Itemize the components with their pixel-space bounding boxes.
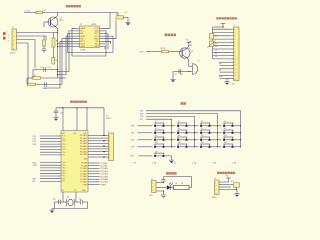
- svg-text:P3.1: P3.1: [62, 165, 66, 167]
- svg-text:P2.4/A12: P2.4/A12: [100, 173, 108, 176]
- svg-text:R3: R3: [56, 41, 58, 43]
- switch S2: [177, 123, 187, 127]
- ground reset key: [169, 160, 174, 163]
- svg-text:J5: J5: [214, 178, 216, 180]
- U1 left pin stubs: [58, 136, 61, 181]
- svg-text:9013: 9013: [60, 20, 64, 22]
- capacitor C4 on row C: [45, 82, 47, 86]
- net labels LCD data: [215, 46, 217, 58]
- wire U2 right pin4: [103, 36, 114, 52]
- wire U2 pin1 route: [72, 28, 77, 51]
- junction keypad: [171, 146, 172, 147]
- junction keypad: [217, 125, 218, 126]
- junction power b: [163, 190, 164, 191]
- title temperature sensor interface: [217, 172, 235, 174]
- power VCC sensor: [226, 177, 231, 179]
- wire button to column: [165, 146, 172, 148]
- wire row continue: [218, 139, 222, 141]
- svg-text:9: 9: [234, 55, 235, 57]
- svg-text:14: 14: [234, 72, 236, 74]
- capacitor C2: [42, 49, 46, 51]
- svg-text:PSEN: PSEN: [100, 184, 106, 186]
- switch S7: [200, 130, 210, 134]
- switch S17: [154, 153, 164, 157]
- wire U2 pin5 route: [62, 39, 77, 85]
- wire Q2 collector to VCC: [186, 42, 188, 48]
- wire keypad bus 1: [146, 111, 241, 147]
- svg-text:2: 2: [13, 36, 14, 38]
- svg-text:30p: 30p: [79, 198, 82, 200]
- svg-text:P12: P12: [33, 141, 36, 143]
- svg-text:R7: R7: [215, 36, 217, 38]
- LED D1: [167, 183, 173, 191]
- U2 right pin stubs: [100, 28, 103, 46]
- title audio amplifier section: [66, 5, 81, 7]
- wire row continue: [195, 132, 199, 134]
- microcontroller U1 body: [61, 131, 88, 193]
- svg-text:S1: S1: [155, 121, 157, 123]
- wire C2 down: [43, 51, 45, 54]
- connector J3 LCD: [234, 27, 240, 81]
- svg-text:C9: C9: [175, 74, 177, 76]
- wire keypad row 3: [138, 139, 153, 141]
- ground audio output: [125, 22, 130, 25]
- svg-text:D2: D2: [215, 53, 217, 55]
- resistor R6: [28, 83, 36, 86]
- switch S10: [177, 137, 187, 141]
- wire C6 down: [55, 113, 57, 118]
- wire button to column: [188, 125, 195, 127]
- connector J4 power: [152, 181, 157, 193]
- junction pin5 rowB: [61, 77, 62, 78]
- svg-text:P2.0/A8: P2.0/A8: [81, 162, 87, 165]
- junction rowA: [57, 69, 58, 70]
- ground reset: [53, 118, 58, 121]
- U1 bottom pin labels: [62, 190, 87, 192]
- wire xtal right: [74, 201, 80, 203]
- junction keypad: [240, 125, 241, 126]
- junction pin4 route: [57, 74, 58, 75]
- wire R10 bottom lead: [236, 187, 238, 189]
- U2 left pin stubs: [77, 28, 80, 46]
- svg-text:S12: S12: [224, 135, 227, 137]
- svg-text:13: 13: [234, 69, 236, 71]
- switch S14: [177, 144, 187, 148]
- svg-text:J2: J2: [108, 131, 110, 133]
- switch S4: [223, 123, 233, 127]
- svg-text:P13: P13: [33, 144, 36, 146]
- capacitor C3 on row A: [44, 67, 46, 71]
- svg-text:RXD: RXD: [33, 162, 38, 164]
- connector J5 sensor: [215, 180, 220, 195]
- svg-text:P3.0: P3.0: [62, 162, 66, 164]
- svg-text:1: 1: [13, 32, 14, 34]
- svg-text:7: 7: [109, 152, 110, 154]
- wire button to column: [188, 139, 195, 141]
- svg-text:P1.3: P1.3: [62, 144, 66, 146]
- wire C10 top: [163, 177, 165, 180]
- junction rail a: [62, 107, 63, 108]
- svg-text:RW: RW: [189, 45, 192, 47]
- wire top power rail: [24, 12, 118, 14]
- svg-text:3: 3: [215, 189, 216, 191]
- wire U2 right pin8: [103, 47, 106, 50]
- U1 right pin names: [80, 134, 88, 186]
- svg-text:SOUND: SOUND: [80, 49, 87, 51]
- junction keypad: [217, 146, 218, 147]
- svg-text:GA10: GA10: [94, 30, 98, 33]
- power VCC alarm: [186, 41, 191, 43]
- svg-text:D1: D1: [215, 50, 217, 52]
- wire keypad bus 3: [146, 116, 195, 146]
- wire U2 pin3 route: [68, 34, 77, 53]
- svg-text:3: 3: [13, 40, 14, 42]
- switch S1: [154, 123, 164, 127]
- wire left vertical: [26, 78, 28, 85]
- svg-text:5: 5: [234, 42, 235, 44]
- wire button to column: [211, 146, 218, 148]
- svg-text:LS: LS: [198, 61, 200, 63]
- svg-text:P2.6/A14: P2.6/A14: [100, 178, 108, 181]
- svg-text:X1: X1: [62, 190, 64, 192]
- wire R9 to loop: [189, 177, 192, 188]
- wire LCD top vcc: [213, 26, 224, 28]
- wire button to column: [165, 132, 172, 134]
- svg-text:12: 12: [234, 65, 236, 67]
- resistor R7 contrast: [210, 34, 214, 40]
- junction emitter buzzer: [188, 71, 189, 72]
- capacitor C8: [81, 200, 83, 204]
- svg-text:4: 4: [13, 44, 14, 46]
- svg-text:P0.2/AD2: P0.2/AD2: [80, 140, 87, 143]
- svg-text:R9: R9: [176, 183, 178, 185]
- capacitor C10: [161, 180, 165, 182]
- svg-text:16: 16: [234, 78, 236, 80]
- svg-text:P37: P37: [140, 52, 143, 54]
- J2 pin stubs: [106, 135, 109, 157]
- svg-text:1: 1: [109, 136, 110, 138]
- wire to alarm ground: [172, 72, 174, 80]
- svg-text:3: 3: [234, 36, 235, 38]
- wire under U2: [68, 52, 114, 54]
- svg-text:4: 4: [234, 39, 235, 41]
- svg-text:P23: P23: [131, 147, 134, 149]
- svg-text:2: 2: [234, 32, 235, 34]
- buzzer LS1: [189, 64, 198, 75]
- svg-text:S4: S4: [224, 121, 226, 123]
- ground sensor: [234, 194, 239, 197]
- net labels LCD 11-16: [219, 63, 223, 78]
- switch S11: [200, 137, 210, 141]
- switch S6: [177, 130, 187, 134]
- wire button to column: [234, 139, 241, 141]
- svg-text:R1: R1: [44, 10, 46, 12]
- svg-text:P2.2/A10: P2.2/A10: [100, 167, 108, 170]
- junction keypad: [171, 139, 172, 140]
- resistor R5: [32, 77, 41, 80]
- wire R2 bottom: [43, 46, 45, 49]
- svg-text:P25: P25: [140, 113, 143, 115]
- svg-text:R10: R10: [231, 181, 234, 183]
- svg-text:AUDIO: AUDIO: [10, 51, 16, 54]
- wire keypad bus 2: [146, 114, 218, 147]
- wire U2 pin4 route: [58, 36, 77, 74]
- svg-text:10: 10: [234, 59, 236, 61]
- svg-text:J4: J4: [151, 179, 153, 181]
- wire power loop top: [164, 176, 192, 178]
- svg-text:3: 3: [109, 141, 110, 143]
- svg-text:Q2: Q2: [191, 51, 193, 53]
- junction keypad: [194, 139, 195, 140]
- wire R4 top lead: [53, 51, 55, 58]
- wire U2 pin6 route: [44, 41, 77, 88]
- svg-text:S14: S14: [178, 142, 181, 144]
- svg-text:5: 5: [13, 48, 14, 50]
- junction sensor: [236, 189, 237, 190]
- switch S9: [154, 137, 164, 141]
- resistor R1: [36, 11, 43, 14]
- svg-text:P2.1/A9: P2.1/A9: [81, 164, 87, 167]
- junction keypad: [240, 139, 241, 140]
- svg-text:P2.5/A13: P2.5/A13: [100, 175, 108, 178]
- svg-text:P3.4: P3.4: [62, 173, 66, 175]
- wire U2 pin2 route: [58, 31, 77, 72]
- capacitor C6 reset: [54, 111, 58, 113]
- svg-text:R5: R5: [34, 75, 36, 77]
- svg-text:4: 4: [215, 193, 216, 195]
- net labels U1 right lower: [100, 162, 108, 187]
- svg-text:P22: P22: [131, 140, 134, 142]
- title LCD 1602 interface: [216, 17, 237, 19]
- wire X2 down: [75, 192, 77, 202]
- junction keypad: [194, 125, 195, 126]
- svg-text:D3: D3: [215, 56, 217, 58]
- svg-text:J1: J1: [12, 27, 14, 29]
- wire U2 right pin5: [103, 20, 117, 39]
- wire U2 right pin1 to rail: [103, 13, 111, 29]
- svg-text:RST: RST: [62, 133, 65, 135]
- wire Q1 collector to rail: [55, 13, 58, 19]
- svg-text:GAIN1: GAIN1: [80, 27, 85, 30]
- svg-text:P0.6/AD6: P0.6/AD6: [80, 150, 87, 153]
- junction keypad: [217, 132, 218, 133]
- wire emitter vertical long: [57, 33, 59, 79]
- wire row continue: [195, 146, 199, 148]
- svg-text:P21: P21: [131, 133, 134, 135]
- wire U2 right pin6: [103, 41, 111, 44]
- svg-text:2: 2: [152, 187, 153, 189]
- svg-text:15: 15: [234, 75, 236, 77]
- wires U1 left group2: [40, 163, 58, 182]
- svg-text:P2.1/A9: P2.1/A9: [100, 165, 107, 168]
- wire row continue: [172, 146, 176, 148]
- svg-text:GAN8: GAN8: [80, 45, 85, 48]
- wire row continue: [195, 139, 199, 141]
- wire J5 pin3: [219, 186, 231, 188]
- wires U1 left group1: [40, 136, 58, 155]
- wire R2 top: [43, 36, 45, 40]
- crystal Y1: [67, 199, 74, 206]
- J3 pin stubs: [230, 29, 234, 78]
- title alarm circuit: [165, 34, 176, 37]
- wire J4 pin2 to LED: [156, 187, 167, 189]
- svg-text:11: 11: [234, 62, 236, 64]
- wire C5 to ground: [124, 17, 129, 22]
- svg-text:18B20: 18B20: [212, 197, 217, 199]
- capacitor C9: [179, 69, 181, 73]
- svg-text:3: 3: [152, 190, 153, 192]
- wire rail drop right: [103, 108, 105, 136]
- junction pin2 route: [57, 71, 58, 72]
- junction vcc lcd: [222, 26, 223, 27]
- red vertical label audio-in: [3, 32, 6, 40]
- svg-text:P2.3/A11: P2.3/A11: [80, 170, 87, 173]
- wire LED to R9: [171, 187, 174, 189]
- ground LCD: [224, 82, 229, 85]
- svg-text:2: 2: [109, 139, 110, 141]
- net labels left group1: [33, 136, 36, 146]
- svg-text:S8: S8: [224, 128, 226, 130]
- junction keypad: [240, 132, 241, 133]
- svg-text:D4: D4: [219, 63, 221, 65]
- svg-text:6: 6: [109, 149, 110, 151]
- wire J1 pin3 row: [17, 40, 36, 69]
- wire J1 pin2 row: [17, 36, 47, 40]
- net labels bottom row: [132, 161, 237, 164]
- wire row A: [33, 69, 58, 71]
- trimmer RP1: [210, 41, 214, 47]
- ground power: [161, 195, 167, 198]
- svg-text:8: 8: [109, 155, 110, 157]
- svg-text:J3: J3: [233, 25, 235, 27]
- U2 right pin names: [94, 28, 99, 48]
- svg-text:P3.3: P3.3: [62, 170, 66, 172]
- svg-text:P26: P26: [140, 116, 143, 118]
- title power interface: [166, 172, 177, 175]
- wire J1 pin4 row: [17, 43, 29, 85]
- J1 outside pin numbers: [8, 32, 10, 43]
- junction rail c: [86, 107, 87, 108]
- resistor R9: [174, 185, 190, 189]
- wire reset key row: [139, 155, 153, 157]
- svg-text:S6: S6: [178, 128, 180, 130]
- wire row C: [27, 84, 62, 86]
- svg-text:1: 1: [215, 182, 216, 184]
- svg-text:5: 5: [109, 147, 110, 149]
- svg-text:X2: X2: [74, 190, 76, 192]
- wire C7 to rail: [55, 202, 58, 209]
- svg-text:P2.7/A15: P2.7/A15: [100, 181, 108, 184]
- svg-text:6: 6: [234, 45, 235, 47]
- svg-text:LM386: LM386: [91, 24, 96, 26]
- wire button to column: [165, 125, 172, 127]
- resistor R4: [52, 58, 55, 65]
- junctions bus column: [103, 135, 104, 158]
- svg-text:1: 1: [152, 183, 153, 185]
- svg-text:P1.7: P1.7: [62, 155, 66, 157]
- svg-text:P0.5/AD5: P0.5/AD5: [80, 148, 87, 151]
- wire rail left drop: [55, 108, 57, 111]
- U1 left pin names: [62, 136, 66, 183]
- svg-text:P1.1: P1.1: [62, 138, 66, 140]
- svg-text:104: 104: [125, 12, 128, 14]
- wire keypad bus 4: [146, 119, 172, 147]
- wire Q1 emitter down: [55, 26, 58, 33]
- svg-text:P2.3/A11: P2.3/A11: [100, 170, 108, 173]
- wire J5 pin1 to VCC: [219, 178, 229, 182]
- svg-text:P10: P10: [33, 136, 36, 138]
- wire J4 pin3 to ground: [156, 191, 164, 195]
- svg-text:TXD: TXD: [33, 165, 37, 167]
- transistor Q2 8550: [180, 48, 190, 58]
- wire keypad row 4: [138, 146, 153, 148]
- junction power a: [163, 182, 164, 183]
- net labels LCD ctrl: [189, 42, 192, 51]
- wire row continue: [218, 146, 222, 148]
- svg-text:P2.7/A15: P2.7/A15: [80, 181, 87, 184]
- wire J5 pin4 to ground: [219, 190, 237, 194]
- svg-text:S15: S15: [201, 142, 204, 144]
- svg-text:S13: S13: [155, 142, 158, 144]
- wire rowA left drop: [32, 70, 34, 79]
- svg-text:S: S: [8, 41, 9, 43]
- svg-text:P1.2: P1.2: [62, 141, 66, 143]
- svg-text:GA81: GA81: [94, 45, 98, 48]
- wire U2 right pin3: [103, 34, 109, 50]
- svg-text:P2.0/A8: P2.0/A8: [100, 162, 107, 165]
- wire row continue: [172, 139, 176, 141]
- U1 top pin labels: [62, 132, 88, 135]
- wire crystal bottom rail: [52, 208, 88, 210]
- svg-text:P0.1/AD1: P0.1/AD1: [80, 137, 87, 140]
- junction keypad: [171, 132, 172, 133]
- junction keypad: [240, 146, 241, 147]
- connector J2 P0 bus: [109, 133, 114, 161]
- resistor R10 pullup: [234, 183, 240, 187]
- svg-text:P3.6: P3.6: [62, 178, 66, 180]
- svg-text:30p: 30p: [53, 198, 56, 200]
- svg-text:104: 104: [40, 67, 43, 69]
- svg-text:104: 104: [180, 74, 183, 76]
- svg-text:P1.0: P1.0: [62, 136, 66, 138]
- capacitor C5 output: [116, 16, 124, 19]
- wire U2 right pin2 loop: [72, 31, 106, 56]
- wire keypad row 2: [138, 132, 153, 134]
- svg-text:P3.5: P3.5: [62, 176, 66, 178]
- wire button to column: [234, 146, 241, 148]
- junction keypad: [194, 132, 195, 133]
- wire rail drop2: [76, 108, 78, 131]
- svg-text:P1.4: P1.4: [62, 147, 66, 149]
- svg-text:C1 104: C1 104: [25, 11, 31, 13]
- switch S15: [200, 144, 210, 148]
- svg-text:P0.3/AD3: P0.3/AD3: [80, 142, 87, 145]
- svg-text:P2.6/A14: P2.6/A14: [80, 178, 87, 181]
- svg-text:P3.7: P3.7: [62, 181, 66, 183]
- wire row continue: [218, 125, 222, 127]
- wire button to column: [234, 125, 241, 127]
- junction pin8: [57, 46, 58, 47]
- title MCU minimal system: [70, 101, 87, 103]
- wire J5 pin2 data: [219, 184, 234, 186]
- svg-text:D6: D6: [219, 69, 221, 71]
- svg-text:P20: P20: [131, 126, 134, 128]
- svg-text:D0: D0: [215, 46, 217, 48]
- connector J1 audio input: [12, 29, 17, 50]
- ground alarm: [170, 79, 175, 82]
- wire keypad row 1: [138, 125, 153, 127]
- junction keypad: [171, 125, 172, 126]
